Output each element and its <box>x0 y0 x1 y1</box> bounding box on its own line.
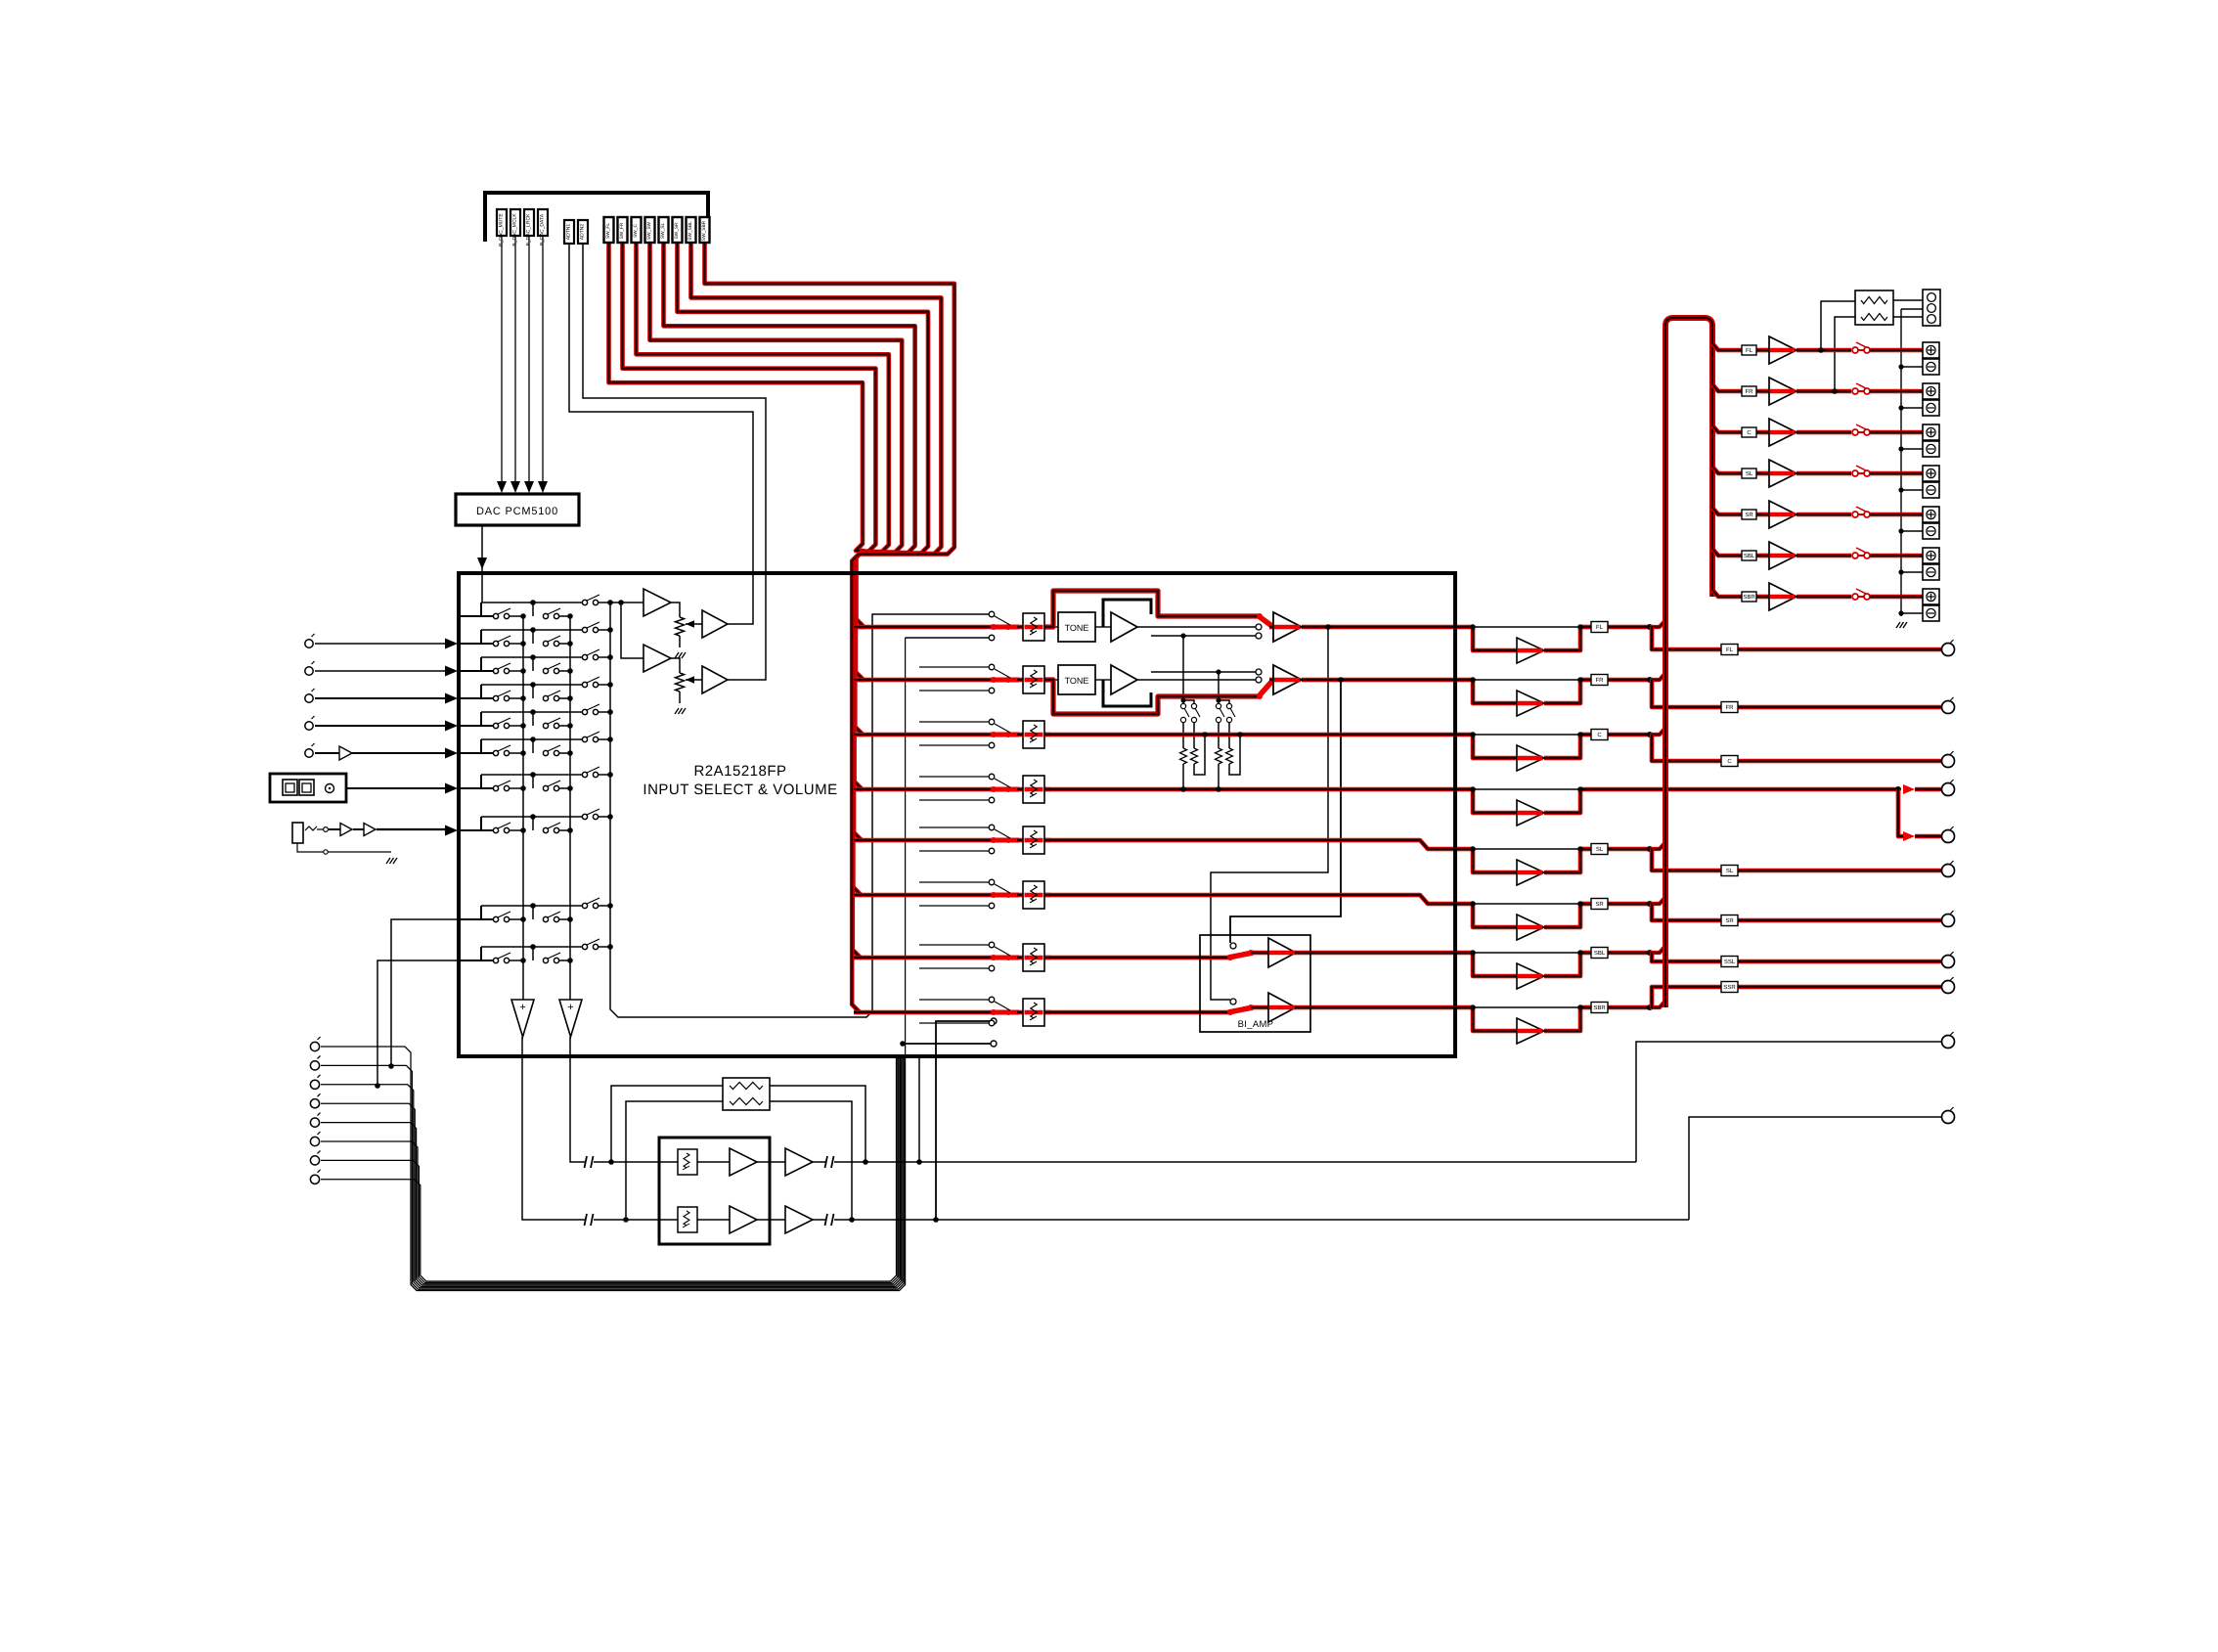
svg-text:ADTN2: ADTN2 <box>580 224 586 241</box>
svg-text:BI_AMP: BI_AMP <box>1238 1019 1274 1030</box>
svg-text:SW_SBR: SW_SBR <box>701 220 707 241</box>
svg-text:SSR: SSR <box>1723 984 1736 991</box>
svg-text:SL: SL <box>1726 868 1734 874</box>
svg-text:B_DAC_MCLK: B_DAC_MCLK <box>512 213 518 246</box>
svg-text:TONE: TONE <box>1065 676 1089 686</box>
svg-text:SSL: SSL <box>1724 959 1736 965</box>
svg-text:SW_SR: SW_SR <box>674 222 680 240</box>
svg-text:SBR: SBR <box>1593 1005 1606 1011</box>
svg-text:SW_FL: SW_FL <box>605 223 611 239</box>
svg-text:DAC PCM5100: DAC PCM5100 <box>476 506 558 517</box>
svg-text:+: + <box>519 1002 525 1013</box>
svg-text:FL: FL <box>1746 347 1753 354</box>
svg-text:C: C <box>1747 429 1752 436</box>
svg-text:+: + <box>567 1002 573 1013</box>
svg-text:SL: SL <box>1746 470 1753 477</box>
svg-text:C: C <box>1727 758 1732 765</box>
svg-text:FR: FR <box>1596 677 1605 684</box>
svg-text:ADTN1: ADTN1 <box>566 224 572 241</box>
svg-text:B_DAC_MUTE: B_DAC_MUTE <box>499 213 505 246</box>
svg-text:SW_C: SW_C <box>633 224 639 238</box>
svg-text:SR: SR <box>1745 512 1753 518</box>
svg-text:INPUT SELECT & VOLUME: INPUT SELECT & VOLUME <box>643 781 837 798</box>
svg-text:FL: FL <box>1596 624 1604 631</box>
svg-text:SR: SR <box>1725 917 1734 924</box>
svg-text:FL: FL <box>1726 647 1734 653</box>
svg-text:SW_SBL: SW_SBL <box>688 221 693 241</box>
svg-text:TONE: TONE <box>1065 623 1089 633</box>
svg-text:SBR: SBR <box>1743 594 1755 601</box>
svg-text:B_DAC_LRCK: B_DAC_LRCK <box>526 213 532 246</box>
svg-text:SW_SW: SW_SW <box>646 221 652 240</box>
svg-text:SL: SL <box>1596 846 1604 853</box>
svg-text:SW_SL: SW_SL <box>660 223 666 240</box>
svg-text:R2A15218FP: R2A15218FP <box>693 763 786 780</box>
svg-text:SBL: SBL <box>1594 950 1606 957</box>
svg-text:SW_FR: SW_FR <box>619 222 625 239</box>
svg-text:B_DAC_DATA: B_DAC_DATA <box>540 213 546 246</box>
svg-text:FR: FR <box>1726 704 1735 711</box>
svg-text:FR: FR <box>1746 388 1754 395</box>
svg-text:SR: SR <box>1595 901 1604 908</box>
svg-text:C: C <box>1597 732 1602 738</box>
svg-text:SBL: SBL <box>1744 553 1755 559</box>
